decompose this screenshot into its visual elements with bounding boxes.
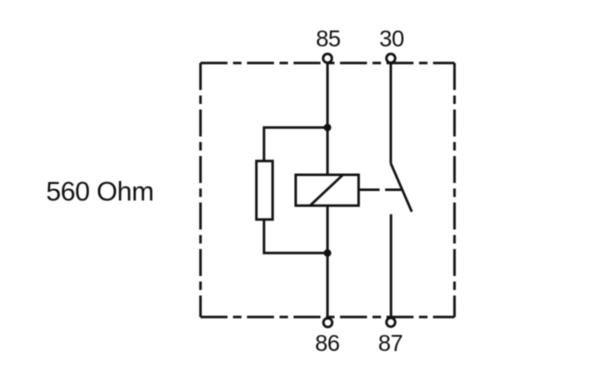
wire: coil down to terminal 86 xyxy=(326,206,329,318)
terminal 30 pin circle xyxy=(386,54,395,63)
relay enclosure dash-dot frame: bottom edge xyxy=(201,316,455,319)
relay enclosure dash-dot frame: top edge xyxy=(201,62,455,65)
terminal 87 pin circle xyxy=(386,318,395,327)
mechanical link coil to blade (dashed) xyxy=(359,188,401,191)
resistor R 560 Ohm (box) xyxy=(256,161,272,220)
svg-text:85: 85 xyxy=(316,26,341,52)
switch blade (NO contact, movable) xyxy=(391,163,412,211)
svg-text:87: 87 xyxy=(378,330,403,356)
svg-text:86: 86 xyxy=(315,330,340,356)
relay coil diagonal stroke xyxy=(311,175,343,205)
wire: top branch to resistor xyxy=(264,128,328,162)
svg-text:560 Ohm: 560 Ohm xyxy=(46,177,154,207)
wire: terminal 85 down to coil xyxy=(326,63,329,175)
wire: resistor bottom branch xyxy=(264,220,328,254)
junction node: top (coil / resistor branch) xyxy=(324,124,332,132)
relay enclosure dash-dot frame: left edge xyxy=(199,63,202,317)
wire: fixed contact down to terminal 87 xyxy=(390,214,393,318)
svg-text:30: 30 xyxy=(379,26,404,52)
junction node: bottom (coil / resistor branch) xyxy=(324,249,332,257)
relay enclosure dash-dot frame: right edge xyxy=(453,63,456,317)
terminal 85 pin circle xyxy=(323,54,332,63)
wire: terminal 30 down to switch pivot xyxy=(390,63,393,164)
terminal 86 pin circle xyxy=(323,318,332,327)
relay coil K (box) xyxy=(296,175,359,206)
